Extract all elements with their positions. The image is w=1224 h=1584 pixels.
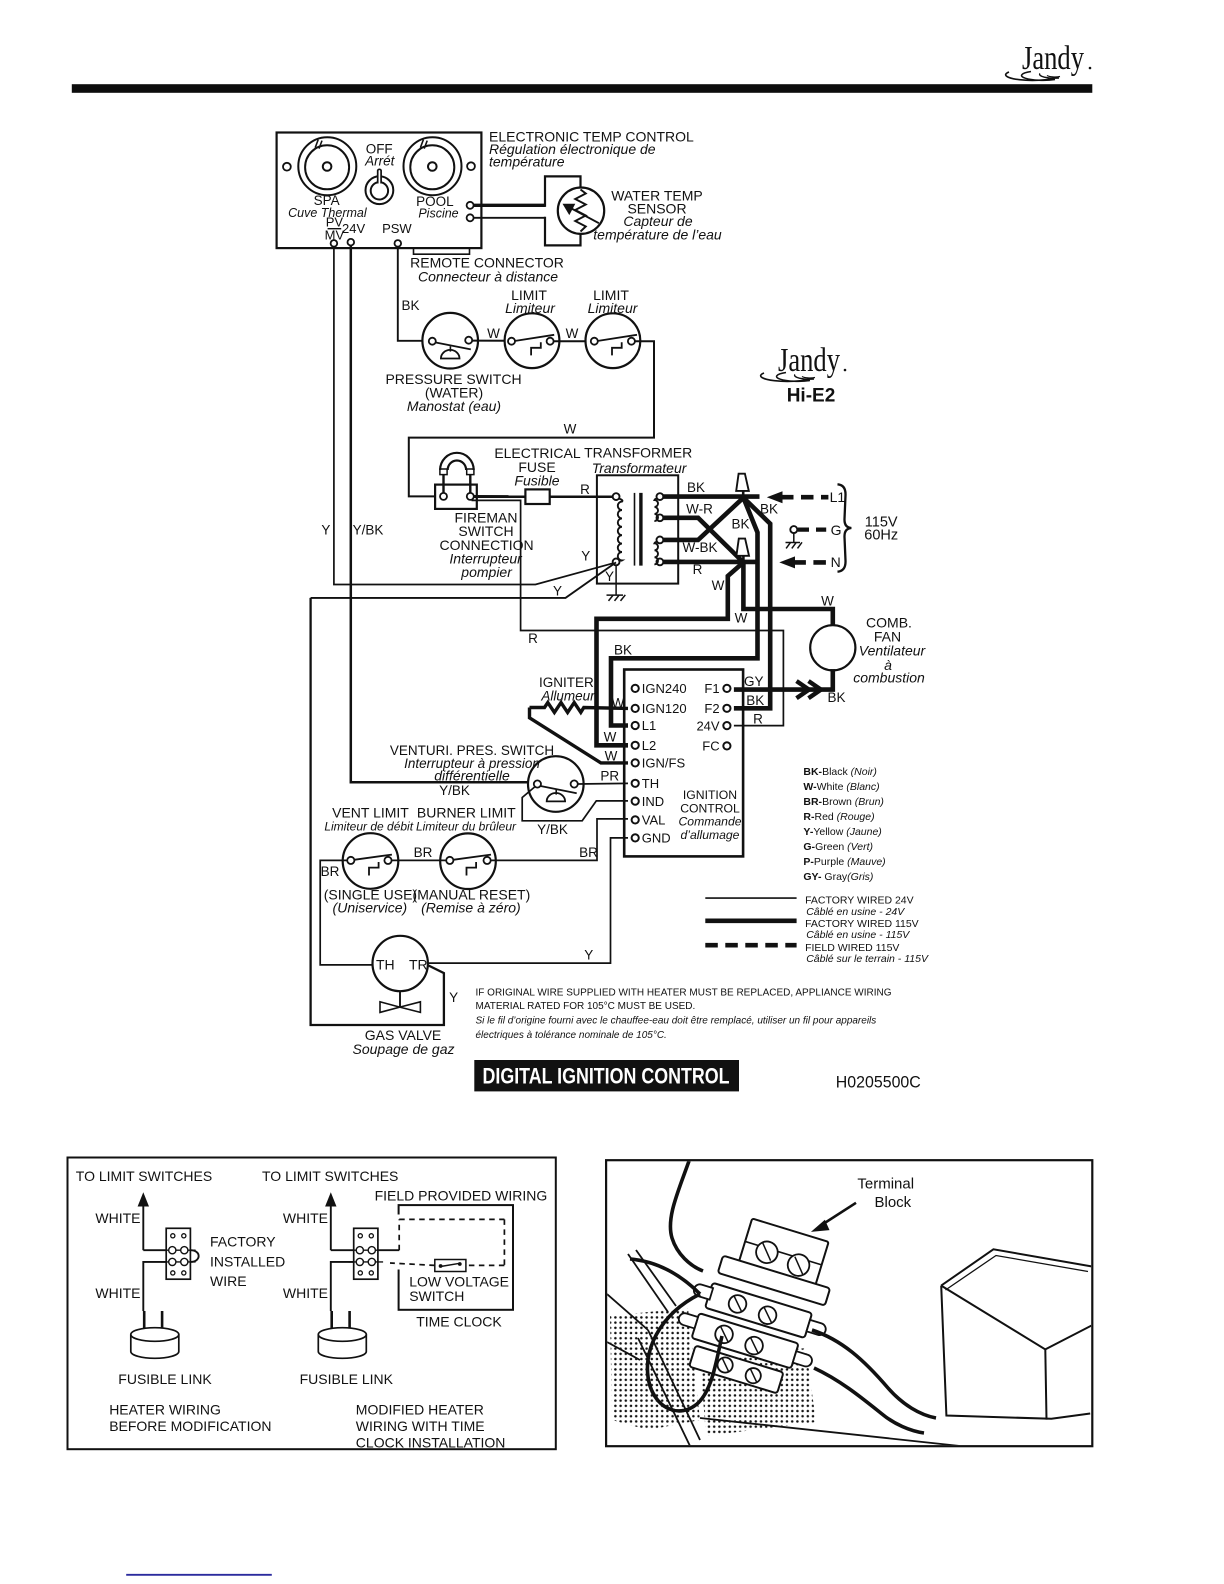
svg-text:WHITE: WHITE — [283, 1285, 328, 1301]
svg-text:TR: TR — [409, 956, 428, 972]
POOL knob — [404, 137, 462, 195]
svg-text:FC: FC — [702, 739, 719, 754]
terminal 24V — [348, 239, 355, 246]
svg-text:PR: PR — [600, 769, 619, 784]
svg-text:TO LIMIT SWITCHES: TO LIMIT SWITCHES — [76, 1168, 212, 1184]
svg-text:BR: BR — [321, 864, 340, 879]
mounting hole left — [283, 163, 291, 171]
svg-text:BK-Black (Noir): BK-Black (Noir) — [803, 766, 877, 778]
connector lugs — [676, 1281, 828, 1369]
note text — [476, 988, 892, 1041]
pin TH — [632, 780, 639, 787]
wire W return loop to fireman switch — [409, 341, 654, 496]
label ELECTRICAL FUSE Fusible — [494, 445, 581, 488]
svg-text:BR: BR — [579, 845, 598, 860]
svg-text:IGN120: IGN120 — [642, 701, 687, 716]
vent limit switch — [343, 833, 399, 889]
svg-text:G: G — [831, 522, 842, 538]
svg-text:W: W — [612, 695, 625, 710]
svg-text:F2: F2 — [704, 701, 719, 716]
svg-text:GY- Gray(Gris): GY- Gray(Gris) — [803, 871, 873, 883]
svg-text:(Uniservice): (Uniservice) — [333, 900, 408, 916]
svg-text:W: W — [564, 421, 577, 436]
svg-text:W: W — [566, 326, 579, 341]
label COMB. FAN — [853, 614, 926, 685]
svg-text:Hi-E2: Hi-E2 — [787, 386, 836, 407]
terminal PV/MV — [331, 240, 338, 247]
wire to limit switches arrow — [325, 1192, 336, 1206]
svg-text:électriques à tolérance nomina: électriques à tolérance nominale de 105°… — [476, 1030, 667, 1041]
wire BK J1 down to ignition L1 — [611, 498, 758, 726]
svg-text:IGN/FS: IGN/FS — [642, 756, 686, 771]
svg-text:Y/BK: Y/BK — [353, 523, 384, 538]
svg-text:W-White (Blanc): W-White (Blanc) — [803, 781, 879, 793]
factory jumper loop — [190, 1250, 198, 1262]
terminal sensor lower — [467, 214, 474, 221]
svg-text:Y: Y — [605, 569, 614, 584]
field wiring L1 dashed arrow — [767, 489, 846, 505]
svg-text:BK: BK — [746, 693, 764, 708]
svg-text:L1: L1 — [642, 718, 656, 733]
terminal block — [161, 1228, 196, 1279]
svg-text:BK: BK — [827, 690, 845, 705]
svg-text:température de l’eau: température de l’eau — [593, 227, 722, 243]
svg-text:FUSIBLE LINK: FUSIBLE LINK — [118, 1371, 212, 1387]
svg-text:TRANSFORMER: TRANSFORMER — [584, 445, 692, 461]
svg-text:G-Green (Vert): G-Green (Vert) — [803, 841, 873, 853]
header rule bar — [72, 84, 1093, 93]
wire white lower — [143, 1262, 166, 1311]
legend line factory 115V — [705, 918, 796, 923]
svg-text:W: W — [712, 578, 725, 593]
svg-text:W: W — [735, 611, 748, 626]
wire white upper — [143, 1249, 166, 1251]
terminal block assembly — [666, 1207, 850, 1402]
svg-text:Soupage de gaz: Soupage de gaz — [353, 1041, 455, 1057]
terminal PSW — [395, 240, 402, 247]
label FIREMAN SWITCH CONNECTION — [440, 509, 534, 580]
svg-text:VENT LIMIT: VENT LIMIT — [332, 804, 409, 820]
svg-text:BEFORE MODIFICATION: BEFORE MODIFICATION — [109, 1418, 271, 1434]
svg-text:Jandy: Jandy — [778, 342, 840, 379]
wire W J2 down to fan — [743, 562, 832, 626]
connector cone 1 — [736, 474, 749, 499]
limit switch 1 — [505, 313, 560, 368]
pin L1 — [632, 722, 639, 729]
time clock box — [399, 1205, 513, 1310]
svg-text:SWITCH: SWITCH — [409, 1288, 464, 1304]
svg-text:Y: Y — [581, 548, 590, 563]
svg-text:WHITE: WHITE — [283, 1210, 328, 1226]
svg-text:Jandy: Jandy — [1022, 40, 1084, 77]
wire to limit switches arrow — [138, 1192, 149, 1206]
svg-text:Si le fil d’origine fourni ave: Si le fil d’origine fourni avec le chauf… — [476, 1015, 877, 1026]
wire R transformer to J2 — [663, 560, 760, 565]
svg-text:Câblé en usine - 115V: Câblé en usine - 115V — [806, 929, 910, 941]
wires — [630, 1161, 936, 1433]
svg-text:BK: BK — [731, 517, 749, 532]
svg-text:BK: BK — [760, 502, 778, 517]
pin 24V — [723, 722, 730, 729]
low voltage switch — [435, 1260, 466, 1272]
wire sensor lower — [474, 217, 545, 219]
svg-text:combustion: combustion — [853, 670, 925, 686]
terminal block — [349, 1228, 384, 1279]
dotted hatch areas — [610, 1308, 700, 1430]
label (MANUAL RESET) — [413, 887, 531, 916]
wire white upper — [331, 1249, 354, 1251]
wire W-R transformer to J2 — [663, 518, 743, 563]
ground terminal G — [786, 522, 842, 548]
terminal block pointer arrow — [820, 1203, 856, 1226]
bottom left panel frame — [68, 1158, 556, 1450]
svg-text:INSTALLED: INSTALLED — [210, 1254, 285, 1270]
svg-text:R: R — [528, 631, 538, 646]
svg-text:Y: Y — [449, 990, 458, 1005]
svg-text:GY: GY — [744, 674, 764, 689]
gas valve — [373, 936, 428, 1013]
svg-text:d’allumage: d’allumage — [681, 828, 740, 842]
transformer T1 — [597, 475, 678, 583]
svg-text:FUSIBLE LINK: FUSIBLE LINK — [300, 1371, 394, 1387]
svg-text:Limiteur: Limiteur — [588, 300, 639, 316]
svg-text:FIELD PROVIDED WIRING: FIELD PROVIDED WIRING — [375, 1188, 548, 1204]
svg-text:BK: BK — [614, 642, 632, 657]
sheet metal edge lines — [607, 1250, 960, 1446]
bottom right panel frame — [606, 1160, 1092, 1446]
brace 115V 60Hz — [838, 484, 852, 571]
svg-text:IGN240: IGN240 — [642, 681, 687, 696]
wire IND to venturi — [522, 787, 628, 821]
svg-text:pompier: pompier — [460, 564, 513, 580]
OFF toggle switch — [366, 169, 394, 204]
Jandy logo (top right) — [1006, 40, 1092, 80]
svg-text:BR-Brown (Brun): BR-Brown (Brun) — [803, 796, 884, 808]
pin IGN240 — [632, 685, 639, 692]
fusible link — [318, 1311, 366, 1358]
legend line field 115V — [705, 943, 796, 948]
pin IND — [632, 798, 639, 805]
svg-text:LOW VOLTAGE: LOW VOLTAGE — [409, 1274, 509, 1290]
svg-text:WHITE: WHITE — [95, 1285, 140, 1301]
svg-text:24V: 24V — [342, 221, 365, 236]
wire stubs to block — [378, 1249, 399, 1251]
svg-text:BURNER LIMIT: BURNER LIMIT — [417, 804, 516, 820]
label IGNITION CONTROL — [679, 788, 742, 842]
svg-text:BK: BK — [687, 480, 705, 495]
wire W pressure to limit1 — [472, 340, 508, 342]
svg-text:Y-Yellow (Jaune): Y-Yellow (Jaune) — [803, 826, 881, 838]
label PRESSURE SWITCH (WATER) — [385, 371, 521, 414]
burner limit switch — [440, 833, 496, 889]
wire GY F1 to fan — [734, 669, 833, 690]
svg-text:Y: Y — [321, 523, 330, 538]
label ELECTRONIC TEMP CONTROL — [489, 129, 694, 170]
legend color codes — [803, 766, 885, 883]
svg-text:Piscine: Piscine — [418, 207, 458, 221]
label (SINGLE USE) — [324, 887, 417, 916]
wire PR venturi to TH — [578, 782, 628, 785]
pin L2 — [632, 742, 639, 749]
svg-text:W: W — [487, 326, 500, 341]
svg-text:W: W — [605, 749, 618, 764]
igniter R1 — [530, 703, 629, 763]
SPA knob — [298, 137, 356, 195]
label VENT LIMIT — [324, 804, 413, 833]
svg-text:P-Purple (Mauve): P-Purple (Mauve) — [803, 856, 885, 868]
wire Y left tall run to gas valve TR — [311, 598, 444, 1025]
pressure switch (water) — [422, 313, 478, 369]
electrical fuse F1 — [525, 489, 549, 504]
svg-text:BK: BK — [401, 298, 419, 313]
svg-text:Allumeur: Allumeur — [540, 688, 595, 703]
wire BR vent limit to gas valve TH — [320, 860, 373, 965]
svg-text:TIME CLOCK: TIME CLOCK — [416, 1313, 502, 1329]
plug chevrons — [797, 681, 822, 698]
wire R to 24V terminal of ignition control — [472, 500, 784, 725]
wire Y lower horizontal — [311, 562, 616, 598]
svg-text:VAL: VAL — [642, 813, 666, 828]
wire W J2 down to ignition L2 — [597, 562, 744, 745]
wire Y GND to gas valve TR — [428, 838, 628, 963]
wire BR burner to VAL — [491, 819, 628, 861]
svg-text:WHITE: WHITE — [95, 1210, 140, 1226]
footer rule — [126, 1574, 272, 1576]
Jandy Hi-E2 logo — [761, 342, 847, 407]
svg-text:IGNITION: IGNITION — [683, 788, 737, 802]
venturi pressure switch — [528, 756, 584, 812]
wire BR vent to burner — [392, 859, 447, 861]
ground (transformer secondary) — [607, 565, 626, 601]
svg-text:MATERIAL RATED FOR 105°C MUST: MATERIAL RATED FOR 105°C MUST BE USED. — [476, 1001, 696, 1012]
svg-text:W-R: W-R — [686, 502, 713, 517]
svg-text:R-Red (Rouge): R-Red (Rouge) — [803, 811, 874, 823]
connector cone 2 — [736, 539, 749, 564]
svg-text:Manostat (eau): Manostat (eau) — [407, 398, 501, 414]
svg-text:TO LIMIT SWITCHES: TO LIMIT SWITCHES — [262, 1168, 398, 1184]
remote connector tab — [414, 248, 470, 254]
label VENTURI. PRES. SWITCH — [390, 743, 554, 784]
svg-text:R: R — [580, 482, 590, 497]
svg-text:Y: Y — [584, 947, 593, 962]
svg-text:Y/BK: Y/BK — [439, 783, 470, 798]
svg-text:Limiteur de débit: Limiteur de débit — [324, 819, 413, 833]
pin IGN120 — [632, 705, 639, 712]
water temp sensor RT1 — [558, 188, 604, 234]
svg-text:WIRING WITH TIME: WIRING WITH TIME — [356, 1418, 485, 1434]
fireman switch connection — [435, 453, 477, 509]
pin FC — [723, 742, 730, 749]
pin F2 — [723, 705, 730, 712]
fusible link — [131, 1311, 179, 1358]
temp control box U1 outline — [277, 133, 482, 249]
svg-text:IND: IND — [642, 794, 664, 809]
wire Y from PV/MV — [334, 247, 616, 585]
svg-text:Connecteur à distance: Connecteur à distance — [418, 269, 558, 285]
svg-text:W: W — [604, 729, 617, 744]
svg-text:F1: F1 — [704, 681, 719, 696]
svg-text:MODIFIED HEATER: MODIFIED HEATER — [356, 1401, 484, 1417]
pin GND — [632, 834, 639, 841]
svg-text:Commande: Commande — [679, 815, 742, 829]
svg-text:R: R — [693, 562, 703, 577]
svg-text:HEATER WIRING: HEATER WIRING — [109, 1401, 221, 1417]
svg-text:DIGITAL IGNITION CONTROL: DIGITAL IGNITION CONTROL — [483, 1064, 730, 1089]
comb fan M1 — [810, 625, 855, 670]
svg-text:CLOCK INSTALLATION: CLOCK INSTALLATION — [356, 1434, 506, 1450]
field wiring N dashed arrow — [779, 554, 840, 570]
wire sensor upper — [474, 204, 545, 207]
label WATER TEMP SENSOR — [593, 188, 722, 243]
pin IGN/FS — [632, 759, 639, 766]
svg-text:TH: TH — [376, 956, 395, 972]
field wiring dashed path — [390, 1219, 504, 1265]
label FACTORY INSTALLED WIRE — [210, 1234, 285, 1290]
heater cabinet box — [941, 1249, 1091, 1419]
svg-text:Limiteur du brûleur: Limiteur du brûleur — [416, 819, 517, 833]
svg-text:Ventilateur: Ventilateur — [859, 643, 927, 659]
ignition control U2 — [624, 670, 743, 857]
svg-text:Y: Y — [553, 584, 562, 599]
wire Y/BK from 24V — [351, 246, 535, 783]
terminal sensor upper — [467, 202, 474, 209]
svg-text:GND: GND — [642, 831, 671, 846]
svg-text:PSW: PSW — [382, 221, 412, 236]
banner DIGITAL IGNITION CONTROL — [474, 1060, 739, 1091]
svg-text:Limiteur: Limiteur — [505, 300, 556, 316]
svg-text:R: R — [753, 712, 763, 727]
svg-text:(Remise à zéro): (Remise à zéro) — [421, 900, 521, 916]
wire W-BK transformer to J1 — [663, 498, 743, 540]
svg-text:Câblé en usine - 24V: Câblé en usine - 24V — [806, 906, 905, 918]
mounting hole right — [467, 162, 475, 170]
wire BK from PSW — [398, 247, 429, 341]
label HEATER WIRING BEFORE MODIFICATION — [109, 1401, 271, 1434]
svg-text:L1: L1 — [830, 489, 846, 505]
label PV/MV — [325, 215, 345, 243]
svg-text:température: température — [489, 154, 565, 170]
svg-text:CONTROL: CONTROL — [680, 801, 740, 815]
label GAS VALVE — [353, 1027, 455, 1057]
svg-text:Terminal: Terminal — [857, 1176, 914, 1193]
legend line factory 24V — [705, 897, 796, 899]
svg-text:Transformateur: Transformateur — [592, 460, 688, 476]
svg-text:BR: BR — [414, 845, 433, 860]
svg-text:24V: 24V — [696, 718, 719, 733]
svg-text:Câblé sur le terrain - 115V: Câblé sur le terrain - 115V — [806, 953, 929, 965]
svg-text:W: W — [821, 594, 834, 609]
label MODIFIED HEATER WIRING — [356, 1401, 506, 1450]
svg-text:différentielle: différentielle — [434, 768, 510, 784]
svg-text:IF ORIGINAL WIRE SUPPLIED WITH: IF ORIGINAL WIRE SUPPLIED WITH HEATER MU… — [476, 988, 892, 999]
wire R fireman to transformer (through fuse) — [474, 495, 613, 498]
wire white lower — [331, 1262, 354, 1311]
svg-text:Block: Block — [875, 1194, 912, 1211]
wire BK transformer to J1 — [663, 494, 760, 499]
svg-text:N: N — [831, 554, 841, 570]
svg-text:H0205500C: H0205500C — [836, 1072, 921, 1091]
limit switch 2 — [586, 313, 641, 368]
pin F1 — [723, 685, 730, 692]
svg-text:TH: TH — [642, 776, 659, 791]
pin VAL — [632, 816, 639, 823]
svg-text:W-BK: W-BK — [682, 540, 717, 555]
svg-text:L2: L2 — [642, 738, 656, 753]
svg-text:Arrét: Arrét — [364, 154, 396, 169]
svg-text:WIRE: WIRE — [210, 1273, 247, 1289]
label BURNER LIMIT — [416, 804, 517, 833]
svg-text:Fusible: Fusible — [514, 472, 559, 488]
svg-text:60Hz: 60Hz — [864, 528, 898, 544]
label LOW VOLTAGE SWITCH — [409, 1274, 509, 1305]
wire BK J1 down to F2 — [734, 498, 770, 709]
svg-text:FACTORY: FACTORY — [210, 1234, 276, 1250]
wire W limit1-limit2 — [554, 340, 591, 342]
svg-text:Y/BK: Y/BK — [537, 822, 568, 837]
